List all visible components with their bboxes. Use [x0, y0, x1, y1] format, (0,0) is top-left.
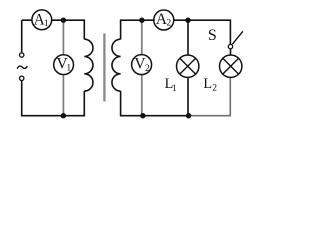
svg-text:1: 1 [66, 63, 71, 74]
svg-text:S: S [208, 27, 217, 44]
svg-text:1: 1 [44, 18, 49, 29]
svg-text:A: A [156, 11, 167, 28]
svg-text:2: 2 [212, 83, 217, 94]
svg-text:2: 2 [166, 18, 171, 29]
svg-text:V: V [134, 56, 145, 73]
svg-text:L: L [203, 76, 212, 92]
svg-text:2: 2 [145, 63, 150, 74]
svg-text:1: 1 [172, 83, 177, 94]
